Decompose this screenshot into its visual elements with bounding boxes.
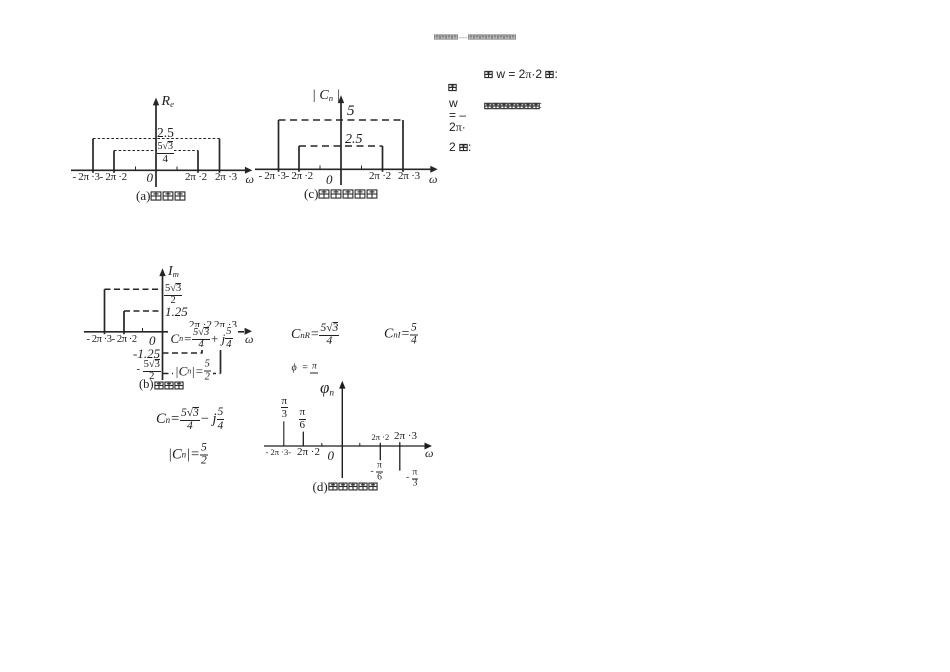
- (b) stem at -2pi.2 up: [123, 311, 125, 334]
- (a) omega: [246, 173, 254, 186]
- formula |Cn| = 5/2 (second): [168, 442, 208, 467]
- (b) caption: [139, 379, 184, 392]
- (a) origin 0: [147, 171, 154, 185]
- formula Cn = 5sqrt3/4 - j 5/4: [156, 407, 224, 433]
- text: = -: [449, 109, 466, 122]
- text: w: [449, 97, 458, 110]
- header line: [434, 34, 516, 40]
- (a) label 2.5: [157, 126, 174, 140]
- (a) x label 2pi.3: [215, 172, 237, 184]
- (c) y arrowhead: [338, 95, 344, 103]
- (c) tick -1: [319, 166, 321, 170]
- (c) caption: [304, 188, 378, 201]
- text: 在 (wrapped col): [448, 81, 457, 94]
- (a) y arrowhead: [153, 98, 159, 106]
- (a) tick -1: [135, 167, 137, 171]
- (d) x label 2pi.2 above: [372, 433, 390, 442]
- (d) label pi/3: [281, 396, 289, 420]
- (c) x label 2pi.3: [398, 171, 420, 183]
- (d) stem at -2pi.3 up: [283, 421, 285, 446]
- (a) stem at 2pi.2: [197, 151, 199, 173]
- (d) x labels left below: [266, 448, 292, 457]
- (a) axis label Re: [162, 95, 174, 110]
- (b) dashed level -5sqrt3/2: [163, 373, 221, 375]
- (d) x arrowhead: [425, 443, 432, 450]
- (a) dashed level 5sqrt3/4: [114, 150, 198, 152]
- (c) x labels left: [259, 171, 313, 183]
- (b) dashed level -1.25: [163, 352, 203, 354]
- (b) tick -1: [142, 328, 144, 332]
- (b) origin 0: [149, 334, 156, 348]
- (d) stem at -2pi.2 up: [302, 432, 304, 446]
- (b) x-axis: [84, 331, 244, 333]
- (a) y-axis: [155, 104, 157, 187]
- (c) stem at -2pi.2: [298, 146, 300, 172]
- formula Cn = 5sqrt3/4 + j 5/4: [171, 327, 233, 351]
- (d) origin 0: [328, 449, 335, 463]
- (b) x arrowhead: [245, 328, 252, 335]
- (d) tick -1: [321, 443, 323, 446]
- (a) stem at 2pi.3: [219, 139, 221, 173]
- (c) x arrowhead: [430, 166, 437, 173]
- (c) axis label |Cn|: [312, 89, 340, 104]
- (a) stem at -2pi.2: [113, 151, 115, 173]
- (d) y arrowhead: [339, 381, 345, 389]
- (d) label -pi/6: [371, 462, 383, 483]
- (b) label 5sqrt3/2: [164, 283, 182, 307]
- (a) x label 2pi.2: [185, 172, 207, 184]
- formula phi = pi/: [292, 363, 319, 374]
- (b) label 1.25: [165, 305, 188, 319]
- (d) caption: [313, 480, 378, 493]
- text: 由上可得频图为:: [484, 102, 543, 111]
- (c) y-axis: [340, 102, 342, 185]
- (d) label -pi/3: [406, 468, 418, 489]
- (b) dashed level 5sqrt3/2: [105, 288, 163, 290]
- text: 2pi·: [449, 121, 466, 134]
- (c) x-axis: [255, 168, 431, 170]
- text: 2 处:: [449, 141, 471, 154]
- (c) label 2.5: [345, 133, 363, 148]
- (b) label -1.25: [133, 347, 160, 361]
- (c) tick +1: [361, 166, 363, 170]
- (c) dashed level 2.5: [299, 145, 383, 147]
- formula |Cn| = 5/2: [175, 360, 211, 383]
- (b) dashed level 1.25: [124, 310, 163, 312]
- (d) axis label phi_n: [320, 379, 334, 397]
- (d) tick +1: [359, 443, 361, 446]
- (a) x-axis: [71, 169, 246, 171]
- (b) stem at -2pi.3 up: [104, 289, 106, 334]
- (b) cover box 2: [173, 360, 213, 380]
- (b) stem at 2pi.2 down: [201, 332, 203, 354]
- (c) omega: [429, 173, 437, 186]
- (d) stem at 2pi.3 down: [399, 442, 401, 470]
- formula CnI = 5/4: [384, 322, 418, 347]
- (b) formula cover box: [168, 327, 238, 350]
- (c) stem at 2pi.2: [382, 146, 384, 172]
- (d) stem at 2pi.2 down: [379, 443, 381, 461]
- text: 在 w = 2pi·2 处:: [484, 68, 558, 81]
- (d) x-axis: [264, 445, 425, 447]
- (c) stem at 2pi.3: [402, 120, 404, 172]
- (b) x label 2pi.3 cut top: [214, 320, 237, 332]
- (b) x labels left: [87, 334, 137, 345]
- (d) x label 2pi.3 above: [394, 431, 417, 443]
- (d) label pi/6: [299, 407, 307, 431]
- (b) x label 2pi.2 cut top: [189, 320, 212, 332]
- formula CnR = 5sqrt3/4: [291, 322, 339, 348]
- (b) y arrowhead: [159, 268, 165, 276]
- (a) stem at -2pi.3: [92, 139, 94, 173]
- (d) x label -2pi.2 below: [297, 447, 320, 459]
- (a) dashed level 2.5: [93, 138, 220, 140]
- (a) label 5sqrt3/4: [157, 141, 175, 165]
- (c) label 5: [347, 104, 355, 120]
- (a) x labels left: [73, 172, 127, 184]
- (b) omega: [245, 333, 253, 346]
- (b) stem at 2pi.3 down: [220, 332, 222, 374]
- (c) dashed level 5: [279, 119, 404, 121]
- (a) caption: [136, 190, 186, 203]
- (c) origin 0: [326, 173, 333, 187]
- (d) y-axis: [341, 388, 343, 478]
- (b) axis label Im: [168, 265, 179, 280]
- (d) omega: [425, 447, 433, 460]
- (c) stem at -2pi.3: [278, 120, 280, 172]
- shared fake CJK glyph symbol: [0, 0, 1, 1]
- (c) x label 2pi.2: [369, 171, 391, 183]
- (a) tick +1: [176, 167, 178, 171]
- (b) label -5sqrt3/2: [137, 359, 161, 383]
- (a) x arrowhead: [245, 167, 252, 174]
- (b) y-axis: [162, 275, 164, 380]
